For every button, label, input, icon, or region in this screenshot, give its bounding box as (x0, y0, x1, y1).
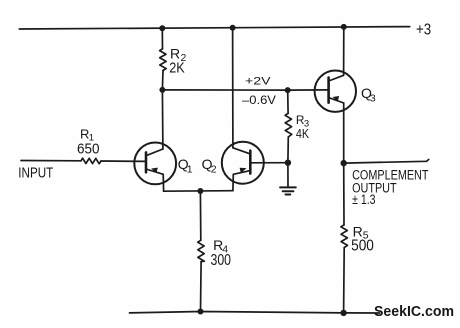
svg-text:± 1.3: ± 1.3 (352, 192, 375, 208)
wire: bias line R2 to Q3 base (162, 89, 328, 91)
wire: R4 top lead (199, 191, 201, 240)
resistor R2 (160, 49, 167, 71)
svg-text:1: 1 (187, 164, 193, 176)
resistor R3 (285, 113, 292, 137)
junction: Q2 base / R3 / ground (285, 160, 291, 166)
junction: R4 / bottom rail (198, 309, 204, 315)
junction: R5 / bottom rail (340, 310, 346, 316)
wire: Q2 emitter down (232, 174, 234, 190)
wire: emitter bus Q1-Q2 (164, 190, 233, 193)
junction: emitter bus / R4 (197, 188, 203, 194)
junction: rail / Q2 collector (230, 25, 236, 31)
svg-text:4K: 4K (296, 127, 310, 141)
junction: R2 / Q1 collector / bias line (159, 87, 165, 93)
resistor R5 (341, 225, 348, 248)
wire: R1 to Q1 base (101, 160, 146, 162)
svg-text:SeekIC.com: SeekIC.com (374, 304, 454, 320)
svg-text:650: 650 (77, 141, 100, 158)
ground (280, 187, 296, 194)
junction: rail / Q3 collector (341, 24, 347, 30)
wire: R5 top lead (343, 163, 345, 225)
wire: Q2 base to R3/ground node (250, 162, 288, 164)
svg-text:2K: 2K (169, 59, 185, 76)
wire: bottom rail (130, 312, 380, 314)
svg-text:300: 300 (211, 252, 232, 269)
transistor Q2 (222, 142, 264, 184)
svg-text:+3: +3 (416, 21, 431, 38)
wire: R5 bottom lead (343, 248, 346, 313)
svg-text:–0.6V: –0.6V (242, 93, 276, 107)
svg-text:+2V: +2V (245, 76, 271, 88)
wire: R4 bottom lead (200, 262, 203, 312)
resistor R1 (81, 158, 101, 164)
wire: ground stem (287, 163, 289, 188)
wire: rail to R2 (161, 28, 163, 49)
svg-text:500: 500 (351, 238, 374, 255)
wire: Q2 collector to +3 rail (232, 28, 234, 148)
wire: R3 bottom lead (287, 137, 289, 163)
transistor Q3 (315, 71, 356, 112)
wire: Q3 emitter to output node (343, 103, 345, 163)
wire: R3 top lead (287, 90, 289, 113)
resistor R4 (198, 240, 205, 261)
junction: Q3 emitter / output / R5 (341, 160, 347, 166)
svg-text:2: 2 (211, 164, 217, 176)
wire: Q1 collector to bias node (161, 90, 164, 149)
wire: Q1 emitter down (162, 174, 164, 191)
junction: rail / R2 (159, 25, 165, 31)
svg-text:INPUT: INPUT (18, 165, 53, 181)
wire: +3 supply rail (top) (19, 27, 409, 29)
wire: Q3 collector to +3 rail (343, 27, 345, 75)
wire: input lead (21, 160, 81, 162)
svg-text:3: 3 (370, 93, 376, 105)
transistor Q1 (134, 143, 176, 185)
wire: R2 to bias node (161, 70, 164, 90)
wire: complement output lead (344, 160, 429, 164)
junction: bias line / R3 (285, 87, 291, 93)
